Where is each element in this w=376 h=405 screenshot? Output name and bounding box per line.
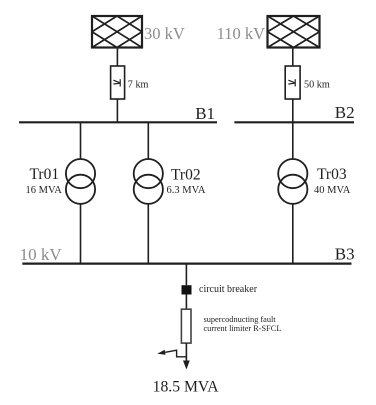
svg-text:B2: B2 — [335, 103, 355, 122]
svg-text:10 kV: 10 kV — [20, 245, 63, 264]
wire Tr02 to busbar B3 — [147, 204, 149, 264]
wire SFCL to load arrow — [185, 343, 187, 361]
circuit breaker CB — [182, 285, 192, 294]
wire breaker to SFCL — [185, 295, 187, 310]
transformer Tr03 — [278, 159, 307, 204]
branch arrow (zigzag to lower-left) — [165, 350, 186, 357]
svg-text:Tr02: Tr02 — [171, 167, 201, 184]
svg-text:6.3 MVA: 6.3 MVA — [167, 185, 206, 196]
svg-text:Tr01: Tr01 — [30, 166, 60, 183]
svg-text:7 km: 7 km — [128, 80, 149, 91]
svg-text:50 km: 50 km — [304, 80, 330, 91]
line L2 (50 km line) — [285, 66, 300, 99]
wire grid2 to line L2 — [292, 48, 294, 67]
svg-text:16 MVA: 16 MVA — [26, 185, 63, 196]
line L1 (7 km cable) — [111, 66, 125, 99]
wire B1 to transformer Tr02 — [147, 122, 149, 159]
svg-text:supercodnucting fault: supercodnucting fault — [204, 315, 277, 324]
svg-text:30 kV: 30 kV — [144, 24, 185, 43]
load arrow (down) — [183, 361, 190, 370]
svg-text:18.5 MVA: 18.5 MVA — [153, 379, 220, 396]
busbar B2 — [234, 121, 354, 123]
wire B1 to transformer Tr01 — [80, 122, 82, 159]
svg-text:40 MVA: 40 MVA — [314, 185, 351, 196]
svg-text:B3: B3 — [335, 245, 355, 264]
SFCL resistor R-SFCL — [181, 309, 191, 343]
svg-text:B1: B1 — [195, 104, 215, 123]
wire L1 to busbar B1 — [116, 99, 118, 122]
wire B2 to transformer Tr03 — [292, 122, 294, 159]
busbar B3 — [22, 263, 351, 265]
external grid source XNet2 (110 kV) — [268, 16, 320, 48]
external grid source XNet1 (30 kV) — [92, 16, 142, 48]
svg-text:circuit breaker: circuit breaker — [199, 284, 258, 295]
svg-text:current limiter R-SFCL: current limiter R-SFCL — [204, 324, 282, 333]
transformer Tr02 — [134, 159, 163, 204]
wire grid1 to line L1 — [116, 48, 118, 67]
svg-text:Tr03: Tr03 — [317, 166, 347, 183]
svg-text:110 kV: 110 kV — [217, 24, 266, 43]
wire Tr03 to busbar B3 — [292, 204, 294, 264]
wire Tr01 to busbar B3 — [80, 204, 82, 264]
wire B3 to circuit breaker — [185, 264, 187, 286]
wire L2 to busbar B2 — [292, 99, 294, 122]
busbar B1 — [19, 121, 217, 123]
transformer Tr01 — [66, 159, 95, 204]
